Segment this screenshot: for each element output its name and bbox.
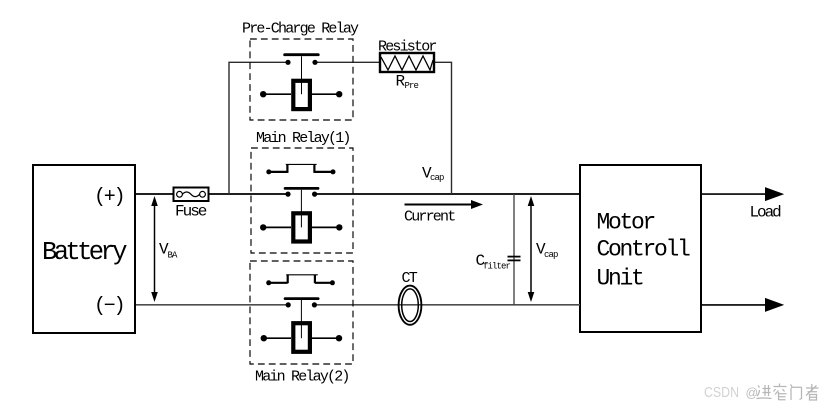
svg-text:cap: cap xyxy=(430,173,444,183)
svg-text:Controll: Controll xyxy=(597,237,691,263)
svg-text:Load: Load xyxy=(750,204,782,222)
svg-text:Current: Current xyxy=(404,209,455,226)
svg-text:cap: cap xyxy=(544,250,558,260)
svg-text:Main Relay(2): Main Relay(2) xyxy=(255,368,349,385)
svg-text:Pre-Charge Relay: Pre-Charge Relay xyxy=(242,21,359,38)
svg-text:Fuse: Fuse xyxy=(175,203,207,221)
svg-text:CT: CT xyxy=(402,270,418,287)
svg-text:(−): (−) xyxy=(94,295,123,318)
svg-text:@: @ xyxy=(746,386,759,400)
svg-text:Unit: Unit xyxy=(597,265,644,291)
svg-text:filter: filter xyxy=(483,262,511,272)
svg-text:Motor: Motor xyxy=(597,210,655,236)
svg-text:Battery: Battery xyxy=(42,238,127,267)
svg-text:BA: BA xyxy=(168,251,179,261)
svg-text:Resistor: Resistor xyxy=(378,39,436,56)
svg-text:CSDN: CSDN xyxy=(704,384,739,401)
svg-text:Main Relay(1): Main Relay(1) xyxy=(256,130,350,147)
svg-text:Pre: Pre xyxy=(405,81,419,91)
svg-text:(+): (+) xyxy=(94,186,123,209)
